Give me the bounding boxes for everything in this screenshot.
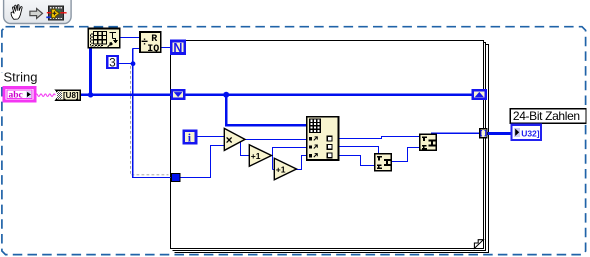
string-to-byte-array node — [56, 90, 80, 100]
string wire wavy — [36, 94, 56, 97]
svg-text:+1: +1 — [276, 165, 286, 175]
svg-text:R: R — [151, 34, 157, 45]
U32 array indicator — [512, 125, 542, 140]
String control terminal — [4, 88, 35, 102]
svg-text:24-Bit Zahlen: 24-Bit Zahlen — [513, 109, 580, 123]
toolbar arrow icon — [30, 9, 43, 19]
svg-text:String: String — [4, 70, 38, 85]
selection marquee dashes — [131, 66, 169, 175]
wire +1b out — [295, 156, 308, 170]
toolbar box — [4, 0, 72, 24]
join numbers node 1 — [375, 154, 391, 171]
wire index row2 to join1 — [338, 147, 379, 154]
wire tunnel to multiply — [180, 146, 225, 178]
wire join2 to tunnel — [431, 132, 480, 134]
wire index row3 to join1 — [338, 156, 375, 166]
left shift register — [172, 90, 185, 99]
svg-text:+1: +1 — [251, 151, 261, 161]
wire join1 to join2 — [391, 148, 419, 162]
24-Bit Zahlen label — [510, 109, 586, 123]
toolbar hand icon — [11, 5, 22, 20]
increment node b — [274, 158, 296, 180]
thick array wires — [80, 48, 512, 135]
join numbers node 2 — [420, 134, 437, 150]
wire branch down to index array — [225, 95, 228, 125]
left tunnel (blue square) — [172, 174, 181, 182]
N terminal — [171, 41, 185, 55]
wire +1a out — [273, 148, 308, 170]
junction 3-divisor — [131, 61, 136, 66]
i terminal — [184, 131, 196, 145]
quotient & remainder node — [140, 32, 161, 55]
thin blue wires — [119, 38, 481, 178]
increment node a — [249, 145, 271, 167]
wire branch up to array size — [89, 48, 92, 95]
wire divisor vertical — [133, 48, 141, 50]
wire 3 to junction — [119, 63, 134, 65]
junction main — [223, 92, 229, 98]
index array node — [307, 117, 339, 160]
svg-text:N: N — [173, 41, 182, 55]
wire index row1 to join2 — [338, 137, 420, 139]
multiply node — [224, 128, 245, 150]
svg-text:[U8]: [U8] — [63, 91, 79, 100]
svg-text:IQ: IQ — [147, 44, 159, 55]
wire array-size to Q&R — [120, 37, 141, 39]
array size node — [88, 29, 120, 48]
wire u8 to left shift register — [80, 93, 171, 96]
svg-text:3: 3 — [109, 58, 115, 70]
wire tunnel to U32 indicator — [486, 132, 512, 135]
gap in dashed border behind String — [1, 73, 4, 87]
wire i to multiply — [197, 136, 225, 138]
svg-text:×: × — [226, 133, 233, 147]
right tunnel (indexing) — [480, 129, 487, 138]
loop folded corner — [474, 240, 483, 249]
wire multiply out — [243, 139, 307, 141]
toolbar VI icon — [46, 6, 66, 20]
junction u8 — [88, 92, 93, 97]
svg-text:U32]: U32] — [521, 128, 540, 138]
svg-text:abc: abc — [9, 91, 23, 101]
for loop border — [171, 41, 489, 253]
wire left SR to right SR — [185, 93, 472, 96]
wire multiply to +1a — [241, 141, 250, 156]
numeric constant 3 — [107, 56, 118, 70]
wire Q&R IQ to N — [161, 47, 171, 49]
right shift register — [473, 90, 486, 99]
